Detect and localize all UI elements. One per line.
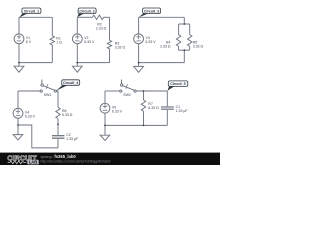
svg-text:1.33 µF: 1.33 µF <box>176 109 188 113</box>
wire circuit2 left rail top <box>76 17 78 34</box>
svg-text:2.33 Ω: 2.33 Ω <box>160 45 171 49</box>
svg-text:Circuit_2: Circuit_2 <box>79 9 94 13</box>
wire circuit3 left rail top <box>138 17 140 34</box>
label Circuit_4 callout <box>56 80 80 91</box>
label Circuit_5 callout <box>167 81 187 91</box>
ground circuit4 <box>13 125 23 140</box>
node circuit5 V5 junction <box>104 125 106 127</box>
node circuit1 junction <box>18 62 20 64</box>
resistor R3 <box>107 40 111 48</box>
label Circuit_1 callout <box>19 8 41 18</box>
node circuit3 bar top <box>183 23 185 25</box>
wire circuit1 left rail top <box>18 17 20 34</box>
svg-text:6.33 V: 6.33 V <box>146 40 157 44</box>
wire circuit3 bottom bar <box>179 49 190 51</box>
switch SW2 <box>120 80 136 93</box>
wire circuit5 top left <box>105 90 120 92</box>
wire circuit1 bottom <box>19 62 52 64</box>
wire circuit2 right rail top <box>109 17 111 40</box>
wire circuit1 top <box>19 16 52 18</box>
label Circuit_3 callout <box>139 8 161 17</box>
svg-text:6.33 V: 6.33 V <box>25 115 36 119</box>
svg-text:6.33 Ω: 6.33 Ω <box>148 106 159 110</box>
voltage source V5 <box>100 103 110 113</box>
wire circuit5 top right <box>136 90 167 92</box>
svg-text:Circuit_4: Circuit_4 <box>63 81 78 85</box>
svg-text:Circuit_1: Circuit_1 <box>24 9 39 13</box>
resistor R2 <box>92 15 103 19</box>
wire circuit1 left rail bottom <box>18 44 20 63</box>
ground circuit1 <box>14 63 24 73</box>
svg-text:LAB: LAB <box>29 160 37 165</box>
capacitor C2 <box>52 124 64 147</box>
wire circuit4 left rail bottom <box>17 118 19 125</box>
svg-text:3.33 Ω: 3.33 Ω <box>115 46 126 50</box>
wire circuit4 switch to rail <box>57 91 58 107</box>
svg-text:Circuit_3: Circuit_3 <box>144 9 159 13</box>
svg-text:3.33 Ω: 3.33 Ω <box>193 45 204 49</box>
wire circuit4 bottom return <box>18 125 58 148</box>
resistor R6 <box>56 107 60 124</box>
ground circuit3 <box>134 63 144 73</box>
node circuit4 V4 junction <box>17 124 19 126</box>
voltage source V2 <box>72 34 82 44</box>
svg-text:6.33 V: 6.33 V <box>112 110 123 114</box>
wire circuit2 top right <box>104 16 110 18</box>
resistor R4 <box>176 24 180 50</box>
voltage source V1 <box>14 34 24 44</box>
node circuit2 junction <box>76 62 78 64</box>
node circuit4 R6-C2 junction <box>57 124 59 126</box>
voltage source V3 <box>134 34 144 44</box>
wire circuit3 top bar <box>179 23 190 25</box>
resistor R5 <box>188 24 192 50</box>
logo resistor zigzag <box>8 161 27 164</box>
wire circuit3 drop from bar <box>183 50 185 62</box>
ground circuit5 <box>100 125 110 140</box>
node circuit3 junction left <box>138 62 140 64</box>
wire circuit4 left rail top <box>17 91 19 108</box>
voltage source V4 <box>13 108 23 118</box>
resistor R7 <box>141 91 145 125</box>
wire circuit5 bottom <box>105 124 167 126</box>
wire circuit3 bottom <box>139 62 185 64</box>
ground circuit2 <box>72 63 82 73</box>
node circuit5 R7 bottom junction <box>143 125 145 127</box>
capacitor C1 <box>161 91 174 125</box>
svg-text:SW2: SW2 <box>123 93 131 97</box>
svg-text:Circuit_5: Circuit_5 <box>170 82 185 86</box>
label Circuit_2 callout <box>77 8 96 17</box>
wire circuit2 left rail bottom <box>76 44 78 63</box>
svg-text:1.33 µF: 1.33 µF <box>66 137 78 141</box>
node circuit5 R7 top junction <box>143 90 145 92</box>
svg-text:SW1: SW1 <box>44 93 52 97</box>
wire circuit5 left rail bottom <box>104 113 106 125</box>
wire circuit2 right rail bottom <box>109 49 111 63</box>
wire circuit2 bottom <box>77 62 109 64</box>
wire circuit4 top left <box>18 90 40 92</box>
node circuit3 bar bottom <box>183 49 185 51</box>
svg-text:1 Ω: 1 Ω <box>56 41 62 45</box>
wire circuit3 top <box>139 16 185 18</box>
svg-text:http://circuitlab.com/circuit/: http://circuitlab.com/circuit/a27nbf8qpp… <box>41 159 111 163</box>
svg-text:6 V: 6 V <box>26 40 32 44</box>
wire circuit3 drop to parallel bar <box>183 17 185 24</box>
wire circuit3 left rail bottom <box>138 44 140 63</box>
wire circuit2 top left <box>77 16 92 18</box>
resistor R1 <box>50 17 54 62</box>
switch SW1 <box>40 80 56 93</box>
footer bar <box>0 153 220 165</box>
wire circuit5 left rail top <box>104 91 106 103</box>
svg-text:6.33 V: 6.33 V <box>84 40 95 44</box>
logo LAB box <box>27 160 38 165</box>
svg-text:6.33 Ω: 6.33 Ω <box>62 113 73 117</box>
svg-text:zjwang / fs365_lab0: zjwang / fs365_lab0 <box>41 154 77 159</box>
svg-text:2.33 Ω: 2.33 Ω <box>96 27 107 31</box>
